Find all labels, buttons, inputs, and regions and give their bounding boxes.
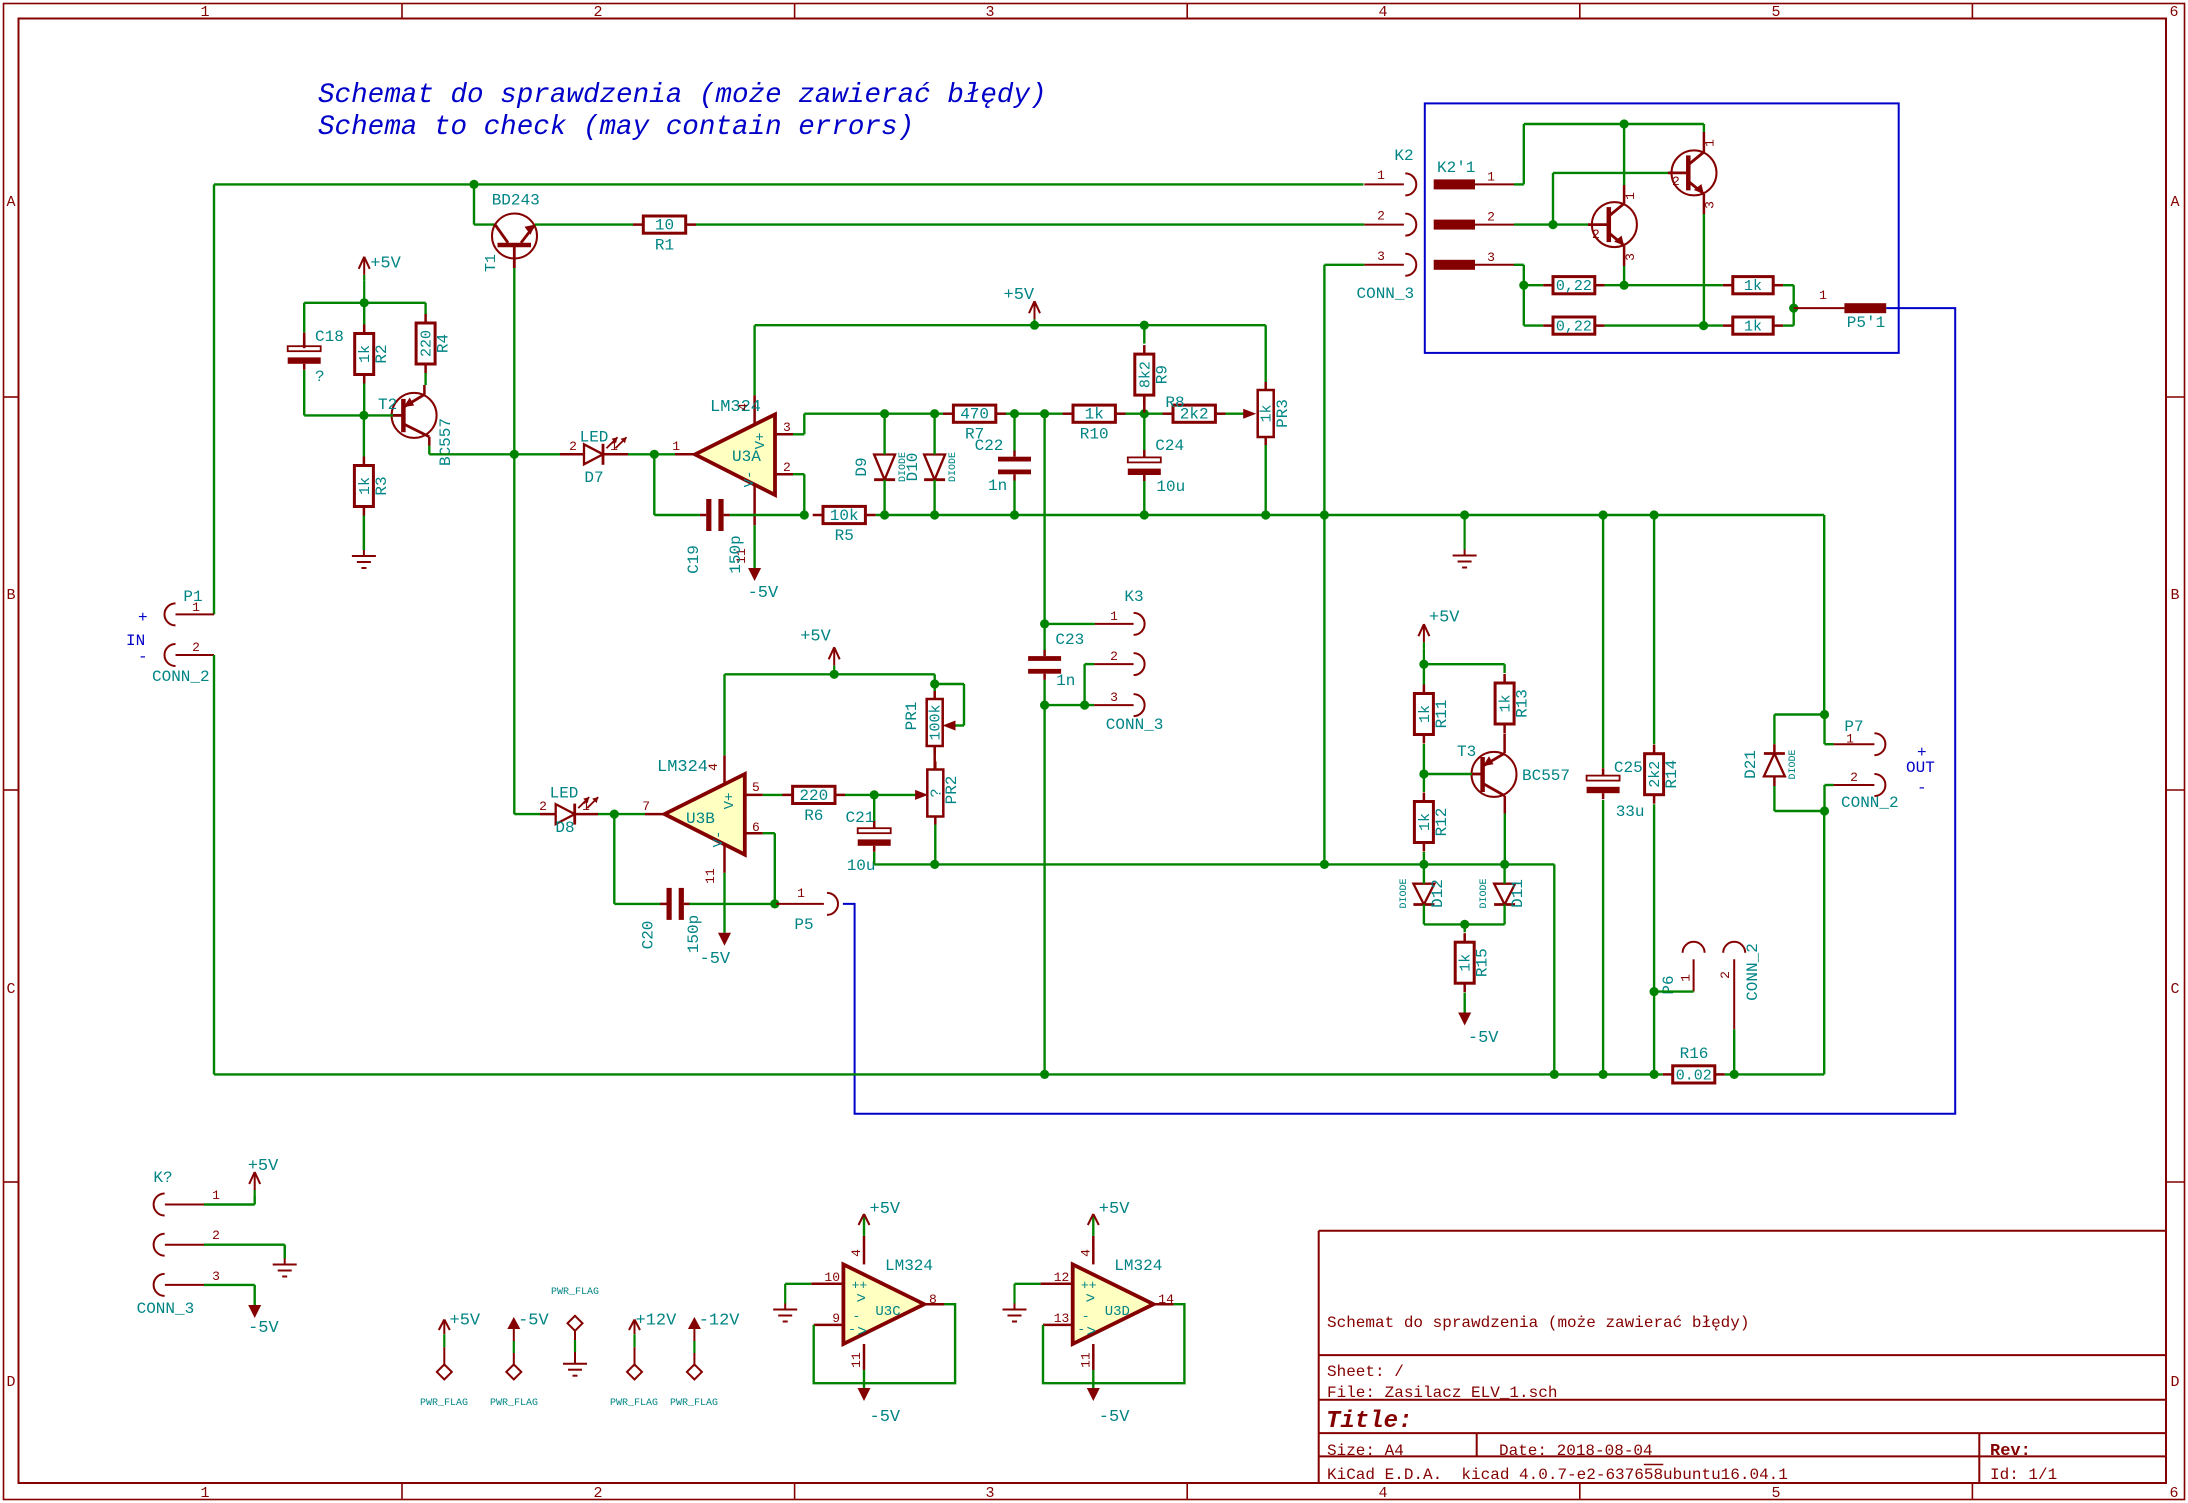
svg-text:PWR_FLAG: PWR_FLAG: [551, 1287, 599, 1298]
sheet box: [1425, 103, 1899, 353]
bottom rail: [214, 1073, 1824, 1075]
node C25 rail: [1599, 1070, 1608, 1079]
svg-text:V-: V-: [742, 471, 758, 488]
svg-text:+5V: +5V: [450, 1312, 481, 1331]
capacitor C19: [685, 499, 745, 574]
svg-text:Schema to check (may contain e: Schema to check (may contain errors): [318, 112, 914, 143]
node D10 top: [930, 409, 939, 418]
resistor R7: [943, 405, 1006, 444]
node Qtop emitter row: [1699, 321, 1708, 330]
node R5 D9: [880, 510, 889, 519]
svg-text:C21: C21: [846, 809, 875, 827]
node C21 top: [870, 790, 879, 799]
svg-text:CONN_2: CONN_2: [152, 668, 210, 686]
svg-text:+5V: +5V: [370, 254, 401, 273]
svg-text:2: 2: [783, 460, 791, 475]
svg-text:R5: R5: [835, 527, 854, 545]
svg-text:C: C: [6, 981, 15, 998]
wire rail up right: [1823, 811, 1825, 1074]
power +5V T2 bias: [359, 254, 402, 303]
svg-text:BD243: BD243: [492, 192, 540, 210]
node C22 top: [1010, 409, 1019, 418]
wire T1 base drop: [474, 184, 495, 224]
svg-text:3: 3: [985, 1485, 994, 1502]
svg-text:1: 1: [1846, 732, 1854, 747]
svg-text:8k2: 8k2: [1137, 361, 1154, 388]
svg-text:CONN_3: CONN_3: [1106, 716, 1164, 734]
svg-text:D21: D21: [1742, 750, 1760, 779]
wire C20 row: [614, 814, 661, 904]
hierarchical pin P5'1: [1794, 288, 1887, 332]
potentiometer PR3: [1258, 382, 1292, 445]
svg-text:-5V: -5V: [870, 1408, 901, 1427]
svg-text:220: 220: [419, 330, 436, 357]
node PR2 bottom: [930, 860, 939, 869]
power -5V U3B: [700, 933, 732, 969]
node T3 emitter row864: [1500, 860, 1509, 869]
wire U3A pin4 to +5V rail: [753, 325, 755, 395]
svg-text:0,22: 0,22: [1556, 319, 1592, 336]
svg-text:-5V: -5V: [518, 1312, 549, 1331]
wire K? pin2: [204, 1245, 285, 1259]
ground mid sheet: [1453, 515, 1477, 568]
diode D21: [1742, 749, 1799, 779]
svg-text:2: 2: [192, 640, 200, 655]
power +5V U3B rail: [800, 627, 840, 674]
svg-text:1k: 1k: [1498, 694, 1515, 712]
svg-text:CONN_3: CONN_3: [1357, 285, 1415, 303]
wire top rail: [214, 183, 1364, 185]
svg-text:3: 3: [1623, 253, 1638, 261]
svg-text:D10: D10: [904, 453, 922, 482]
wire row864 drop: [1553, 864, 1555, 1074]
wire D21 bottom link: [1774, 776, 1824, 811]
ground below R3: [352, 516, 376, 569]
svg-text:LED: LED: [580, 429, 609, 447]
resistor R3: [354, 457, 391, 516]
wire Qtop collector: [1703, 124, 1705, 132]
svg-text:C25: C25: [1614, 759, 1643, 777]
svg-text:>: >: [1086, 1323, 1096, 1341]
svg-text:C23: C23: [1055, 631, 1084, 649]
wire row1 mid: [1605, 284, 1723, 286]
svg-text:1: 1: [192, 600, 200, 615]
svg-text:B: B: [6, 587, 15, 604]
svg-text:C18: C18: [315, 328, 344, 346]
connector P5: [776, 886, 838, 934]
svg-text:470: 470: [960, 406, 989, 424]
svg-text:4: 4: [1378, 4, 1387, 21]
node junction top rail: [469, 180, 478, 189]
svg-text:C24: C24: [1155, 437, 1184, 455]
svg-text:10: 10: [824, 1270, 840, 1285]
wire K? pin1: [204, 1196, 255, 1205]
wire C19 left: [654, 454, 700, 515]
wire R3 stubs: [363, 415, 365, 550]
svg-text:0,22: 0,22: [1556, 278, 1592, 295]
power -5V U3A: [748, 568, 779, 603]
ground K?: [273, 1245, 297, 1277]
power +5V T3: [1418, 609, 1460, 665]
svg-text:PR3: PR3: [1274, 399, 1292, 428]
resistor R14: [1645, 745, 1682, 804]
wire R14 bottom: [1653, 804, 1655, 1074]
svg-text:-5V: -5V: [248, 1319, 279, 1338]
svg-text:1k: 1k: [357, 345, 374, 363]
power -5V K?: [248, 1305, 279, 1338]
wire U3B pin4 riser: [723, 674, 725, 755]
svg-text:R1: R1: [655, 237, 674, 255]
svg-text:1: 1: [212, 1188, 220, 1203]
svg-text:1: 1: [1703, 139, 1718, 147]
svg-text:5: 5: [752, 780, 760, 795]
node T3 top: [1419, 660, 1428, 669]
wire R13 to T3: [1503, 734, 1506, 754]
svg-text:1k: 1k: [1744, 278, 1762, 295]
connector P1: [152, 588, 214, 686]
svg-text:R4: R4: [435, 334, 453, 353]
node K3 pin1: [1040, 619, 1049, 628]
svg-text:U3C: U3C: [875, 1304, 900, 1320]
svg-text:2: 2: [569, 439, 577, 454]
wire to D7: [514, 453, 584, 455]
svg-text:T2: T2: [378, 396, 397, 414]
node bottom rail C23col: [1040, 1070, 1049, 1079]
svg-text:C20: C20: [640, 921, 658, 950]
node D21 bottom: [1820, 806, 1829, 815]
svg-text:1k: 1k: [1085, 406, 1104, 424]
wire C25 bottom: [1602, 800, 1604, 1074]
wire Qmid base net: [1514, 223, 1588, 225]
wire row1 left: [1524, 284, 1544, 286]
svg-text:C19: C19: [685, 545, 703, 574]
svg-text:2: 2: [1592, 227, 1600, 242]
svg-text:2: 2: [1672, 174, 1680, 189]
wire K3 pin3: [1045, 704, 1134, 706]
wire R7-R10: [1006, 413, 1063, 415]
wire bias to R4: [364, 303, 425, 314]
svg-text:?: ?: [315, 368, 325, 386]
svg-text:R14: R14: [1663, 760, 1681, 789]
node bottom rail drop864: [1550, 1070, 1559, 1079]
resistor R11: [1414, 685, 1451, 744]
node U3B input: [610, 810, 619, 819]
svg-text:2: 2: [1487, 210, 1495, 225]
node +5V rail: [1030, 321, 1039, 330]
svg-text:1: 1: [200, 4, 209, 21]
wire Qmid collector: [1623, 124, 1625, 185]
node R14 rail: [1650, 1070, 1659, 1079]
svg-text:+12V: +12V: [636, 1312, 678, 1331]
svg-text:T3: T3: [1457, 743, 1476, 761]
note text line 2: [318, 112, 914, 143]
node gnd stem: [1460, 510, 1469, 519]
diode D9: [853, 414, 909, 515]
svg-text:1k: 1k: [1458, 954, 1475, 972]
svg-text:4: 4: [849, 1249, 864, 1257]
wire C20 right: [689, 903, 775, 905]
node C22 bottom: [1010, 510, 1019, 519]
resistor R4: [416, 314, 453, 373]
svg-text:3: 3: [1703, 201, 1718, 209]
svg-text:-: -: [138, 648, 148, 666]
wire Qmid emitter: [1623, 266, 1625, 285]
svg-text:D: D: [6, 1374, 15, 1391]
transistor Q mid box: [1588, 185, 1638, 266]
svg-text:4: 4: [1378, 1485, 1387, 1502]
node R14 top: [1650, 510, 1659, 519]
svg-text:>: >: [856, 1290, 866, 1308]
svg-text:-5V: -5V: [748, 584, 779, 603]
wire T3 base wire: [1424, 773, 1472, 775]
svg-text:K3: K3: [1124, 588, 1143, 606]
transistor T1: [483, 192, 540, 273]
svg-text:R3: R3: [373, 476, 391, 495]
svg-text:-: -: [1917, 779, 1927, 797]
svg-text:1: 1: [1623, 192, 1638, 200]
svg-text:D: D: [2170, 1374, 2179, 1391]
capacitor C20: [640, 888, 703, 953]
svg-text:DIODE: DIODE: [1399, 878, 1410, 908]
wire R12 bottom: [1423, 852, 1425, 864]
svg-text:1: 1: [200, 1485, 209, 1502]
op-amp U3B: [642, 755, 763, 883]
svg-text:1: 1: [1679, 974, 1694, 982]
svg-text:K2: K2: [1394, 147, 1413, 165]
svg-text:4: 4: [736, 403, 751, 411]
svg-text:11: 11: [703, 868, 718, 884]
wire R5 right: [876, 514, 1824, 516]
resistor R16: [1663, 1045, 1725, 1084]
wire box pin1 riser: [1514, 124, 1524, 184]
wire diodes to R15: [1424, 924, 1505, 932]
svg-text:-: -: [848, 1322, 856, 1337]
wire P7 pin1 link: [1825, 715, 1834, 745]
wire D21 top link: [1774, 715, 1824, 753]
wire R2 bottom stub: [363, 384, 365, 416]
op-amp U3D: [1003, 1200, 1185, 1427]
svg-text:1k: 1k: [1744, 319, 1762, 336]
svg-text:U3A: U3A: [732, 448, 761, 466]
svg-text:Title:: Title:: [1326, 1408, 1412, 1435]
svg-text:R13: R13: [1514, 689, 1532, 718]
wire U3B +5V rail: [725, 673, 935, 675]
svg-text:150p: 150p: [727, 535, 745, 573]
node Qmid emitter row: [1620, 281, 1629, 290]
svg-text:File: Zasilacz ELV_1.sch: File: Zasilacz ELV_1.sch: [1327, 1384, 1557, 1402]
svg-text:CONN_2: CONN_2: [1744, 943, 1762, 1001]
svg-text:DIODE: DIODE: [1788, 749, 1799, 779]
title block: [1319, 1231, 2166, 1484]
svg-text:DIODE: DIODE: [948, 452, 959, 482]
svg-text:DIODE: DIODE: [1479, 878, 1490, 908]
power flag +12V: [610, 1312, 677, 1409]
svg-text:LED: LED: [550, 785, 579, 803]
wire T2 base: [364, 414, 393, 416]
potentiometer PR2: [927, 762, 961, 825]
wire R14 col: [1653, 515, 1655, 744]
svg-text:+5V: +5V: [800, 627, 831, 646]
node bias junction: [360, 298, 369, 307]
node Qmid base: [1548, 220, 1557, 229]
svg-text:1n: 1n: [1056, 672, 1075, 690]
wire P1 pin1 riser: [213, 184, 215, 614]
wire C18 bottom: [304, 370, 364, 415]
svg-text:Rev:: Rev:: [1990, 1442, 2031, 1461]
node R12 row864: [1419, 860, 1428, 869]
svg-text:KiCad E.D.A. kicad 4.0.7-e2-6: KiCad E.D.A. kicad 4.0.7-e2-637658ubuntu…: [1327, 1466, 1788, 1484]
svg-text:6: 6: [752, 820, 760, 835]
potentiometer PR1: [903, 691, 945, 754]
wire PR2 bottom: [934, 825, 936, 865]
svg-text:Date: 2018-08-04: Date: 2018-08-04: [1499, 1442, 1653, 1460]
svg-text:K2'1: K2'1: [1437, 159, 1475, 177]
wire C25 col: [1602, 515, 1604, 768]
svg-text:1: 1: [610, 439, 618, 454]
wire T3 rail right: [1424, 664, 1505, 673]
resistor R2: [355, 325, 392, 384]
wire R4 bottom stub: [424, 373, 426, 385]
svg-text:2: 2: [1850, 770, 1858, 785]
svg-text:3: 3: [212, 1269, 220, 1284]
svg-text:3: 3: [1487, 250, 1495, 265]
svg-text:PWR_FLAG: PWR_FLAG: [670, 1398, 718, 1409]
svg-text:R15: R15: [1474, 948, 1492, 977]
svg-text:6: 6: [2169, 4, 2178, 21]
wire C22 leads: [1013, 414, 1015, 515]
connector K?: [137, 1169, 220, 1318]
node R5 left: [800, 510, 809, 519]
svg-text:P5'1: P5'1: [1847, 314, 1885, 332]
svg-text:Schemat do sprawdzenia (może z: Schemat do sprawdzenia (może zawierać bł…: [318, 80, 1047, 111]
wire K3 pin2: [1085, 664, 1134, 705]
svg-text:R10: R10: [1080, 426, 1109, 444]
power +5V K?: [248, 1157, 279, 1196]
resistor R6: [782, 786, 845, 825]
svg-text:V+: V+: [722, 793, 738, 810]
wire +5V rail row: [755, 324, 1266, 326]
svg-text:10k: 10k: [830, 507, 859, 525]
node row515 K2col: [1320, 510, 1329, 519]
svg-text:2: 2: [212, 1228, 220, 1243]
svg-text:U3B: U3B: [686, 810, 715, 828]
wire P7 pin2 link: [1825, 785, 1834, 811]
wire row2 right: [1783, 308, 1794, 326]
resistor R15: [1455, 933, 1492, 992]
svg-text:220: 220: [799, 787, 828, 805]
wire R12 top: [1423, 774, 1425, 792]
svg-text:+: +: [1917, 744, 1927, 762]
wire P6 pin1: [1654, 990, 1694, 992]
svg-text:PWR_FLAG: PWR_FLAG: [490, 1398, 538, 1409]
led D8: [539, 785, 598, 838]
connector P7: [1834, 718, 1899, 812]
wire T3 emitter: [1504, 814, 1506, 865]
resistor 1k lower: [1723, 317, 1783, 336]
svg-text:6: 6: [2169, 1485, 2178, 1502]
node P6 link: [1650, 987, 1659, 996]
wire R9 bottom: [1143, 396, 1146, 414]
svg-text:D7: D7: [584, 469, 603, 487]
node +5V U3B: [830, 670, 839, 679]
wire K3 pin1: [1045, 623, 1134, 625]
wire R9 column: [1143, 325, 1145, 343]
svg-text:Schemat do sprawdzenia (może z: Schemat do sprawdzenia (może zawierać bł…: [1327, 1314, 1749, 1332]
svg-text:LM324: LM324: [1114, 1257, 1162, 1275]
svg-text:10: 10: [655, 217, 674, 235]
transistor T2: [378, 385, 455, 466]
wire D7 to U3A: [603, 453, 675, 456]
hierarchical pins K2'1: [1434, 159, 1514, 270]
resistor 0.22 lower: [1543, 317, 1604, 336]
wire T1 collector to R1: [535, 223, 633, 225]
svg-text:150p: 150p: [685, 915, 703, 953]
capacitor C21: [846, 809, 891, 875]
svg-text:3: 3: [1377, 249, 1385, 264]
svg-text:P5: P5: [794, 916, 813, 934]
svg-text:+5V: +5V: [1099, 1200, 1130, 1219]
svg-text:1: 1: [1377, 168, 1385, 183]
note text line 1: [318, 80, 1047, 111]
wire T2 collector to D7 row: [429, 446, 514, 455]
svg-text:1: 1: [672, 439, 680, 454]
wire rail to PR1: [934, 674, 936, 691]
wire R6 to PR2: [845, 790, 928, 800]
svg-text:0.02: 0.02: [1676, 1067, 1712, 1084]
svg-text:1: 1: [1110, 609, 1118, 624]
node PR3 bottom: [1261, 510, 1270, 519]
connector P6: [1660, 942, 1762, 1030]
svg-text:11: 11: [849, 1352, 864, 1368]
label IN: [126, 609, 148, 666]
svg-text:C22: C22: [975, 437, 1004, 455]
node U3A input: [650, 450, 659, 459]
wire P1 pin2 down: [213, 655, 215, 1074]
power +5V main rail: [1004, 286, 1041, 325]
node R10 R9 C24: [1140, 409, 1149, 418]
transistor T3: [1457, 743, 1570, 814]
wire row864: [874, 863, 1554, 865]
svg-text:-: -: [1077, 1322, 1085, 1337]
svg-text:Size: A4: Size: A4: [1327, 1442, 1404, 1460]
svg-text:12: 12: [1054, 1270, 1070, 1285]
svg-text:100k: 100k: [928, 704, 945, 740]
wire U3B pin11 to -5V: [723, 873, 725, 933]
wire T1 emitter drop: [513, 268, 515, 814]
wire K? pin3: [204, 1285, 255, 1305]
diode D10: [904, 414, 959, 515]
svg-text:V+: V+: [753, 433, 769, 450]
svg-text:PWR_FLAG: PWR_FLAG: [420, 1398, 468, 1409]
svg-text:8: 8: [929, 1292, 937, 1307]
svg-text:10u: 10u: [1156, 478, 1185, 496]
svg-text:7: 7: [642, 799, 650, 814]
wire U3A pin11 to -5V: [753, 525, 755, 568]
wire U3B pin6: [763, 833, 775, 904]
svg-text:R12: R12: [1433, 808, 1451, 837]
svg-text:2: 2: [1718, 971, 1733, 979]
power flag -5V: [490, 1312, 550, 1409]
wire R11 bottom: [1423, 744, 1425, 774]
svg-text:>: >: [857, 1323, 867, 1341]
svg-text:1: 1: [1819, 288, 1827, 303]
node P5 junction: [770, 899, 779, 908]
svg-text:+5V: +5V: [1004, 286, 1035, 305]
svg-text:1: 1: [582, 799, 590, 814]
svg-text:PR2: PR2: [943, 776, 961, 805]
node box row1 left: [1519, 281, 1528, 290]
transistor Q top box: [1668, 132, 1718, 214]
